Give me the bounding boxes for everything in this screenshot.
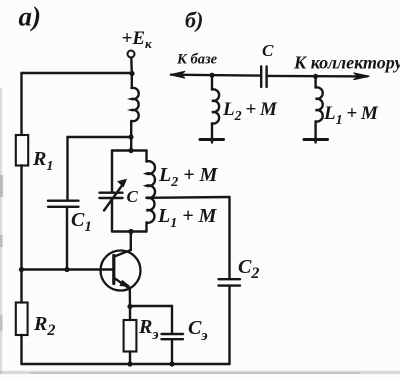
wire b main left [171,73,260,76]
wire tank left upper [111,151,113,193]
node tank bottom junction [128,229,133,234]
svg-text:б): б) [185,8,203,33]
wire top horizontal [22,72,132,74]
svg-text:С: С [127,187,139,206]
capacitor C1 [48,201,79,207]
node R3 rail junction [127,361,132,366]
node b right junction [313,74,318,79]
node b left junction [209,73,214,78]
wire b right lower [314,121,316,142]
wire choke to tank [130,121,132,150]
node Ce rail junction [169,361,174,366]
wire tank right lower stub [145,223,147,232]
capacitor C coupling [261,67,266,88]
wire left rail upper [20,73,22,135]
inductor L1+M tank winding [147,198,155,223]
wire base [22,268,113,270]
inductor L2+M tank winding [147,161,155,198]
node tank feed junction [128,134,133,139]
node base-C1 junction [64,267,69,272]
wire tap to C2 [149,196,230,199]
svg-text:К коллектору: К коллектору [293,53,400,73]
wire left rail middle [20,166,22,303]
resistor R emitter [124,320,137,352]
wire left rail lower [20,335,22,364]
terminal +Ek [128,51,135,58]
capacitor C emitter [162,334,184,339]
transistor Q1 [101,251,141,291]
wire tank bottom edge [112,230,147,232]
capacitor C2 [219,279,241,285]
node tank top junction [128,148,133,153]
arrow to collector [354,73,370,80]
wire C2 lower lead [228,286,230,364]
node Ek junction [129,71,134,76]
wire b main right [268,75,367,78]
resistor R1 [16,135,28,166]
wire tank left lower [111,198,113,232]
wire emitter to Ce [130,306,172,334]
wire b left stem [211,75,213,89]
inductor L1+M equivalent [316,87,323,121]
wire Ek stem [130,58,133,88]
wire R3 lower lead [129,352,131,365]
ground b right [304,138,328,141]
inductor choke [132,88,139,121]
wire tank top edge [112,149,147,151]
resistor R2 [16,303,28,336]
wire feed to C1 branch [68,136,132,138]
wire emitter to R3 [129,307,131,321]
wire C1 lower lead [66,207,68,270]
svg-text:К базе: К базе [176,52,218,68]
wire bottom rail [22,363,230,365]
arrow to base [170,71,185,78]
wire emitter [115,278,131,306]
ground b left [200,138,224,141]
wire b left lower [211,123,213,142]
wire C2 upper lead [228,197,230,279]
svg-text:С: С [262,41,274,60]
wire collector [114,232,131,257]
svg-text:а): а) [19,2,42,32]
wire Ce lower lead [171,340,173,365]
node base-rail junction [19,267,24,272]
inductor L2+M equivalent [212,89,219,123]
wire b right stem [314,76,316,87]
wire tank right upper stub [145,151,147,162]
capacitor C variable [100,193,123,198]
node emitter junction [127,304,132,309]
wire C1 upper lead [66,137,68,200]
